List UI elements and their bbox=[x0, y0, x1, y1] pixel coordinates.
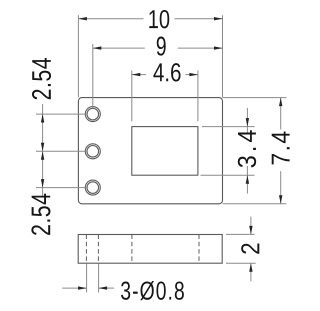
ext line 4.6 right bbox=[197, 71, 199, 122]
side view outline bbox=[78, 235, 222, 264]
arrow 4.6 left bbox=[132, 73, 141, 76]
arrow 10 right bbox=[214, 17, 223, 20]
arrow 2.54a top bbox=[41, 114, 44, 123]
text 2.54a bbox=[32, 58, 51, 99]
text 4.6 bbox=[153, 63, 180, 81]
arrow 0.8 left (outside, points right) bbox=[78, 286, 87, 289]
dim 7.4 vertical line bbox=[280, 98, 282, 130]
dim 2.54 shared vertical line bbox=[42, 104, 44, 197]
dim 7.4 ext lines bbox=[223, 97, 287, 99]
text dia bbox=[121, 281, 184, 300]
arrow 2.54b top bbox=[41, 151, 44, 160]
arrow 10 left bbox=[78, 17, 87, 20]
ext line right 10/9 bbox=[222, 15, 224, 97]
hole H1 outer bbox=[85, 107, 100, 122]
arrow 9 left bbox=[93, 46, 102, 49]
dim 0.8 horizontal line bbox=[62, 287, 86, 289]
arrow 2.54a bottom bbox=[41, 143, 44, 152]
hole H1 inner bbox=[87, 108, 99, 120]
text 10 bbox=[149, 10, 169, 28]
ext line 9 left (through hole1) bbox=[92, 44, 94, 108]
ext line left 10 bbox=[77, 15, 79, 97]
ext line 4.6 left bbox=[131, 71, 133, 122]
inner pocket rectangle bbox=[132, 127, 198, 176]
hole H2 outer bbox=[85, 144, 100, 159]
arrow 3.4 top (outside, points down) bbox=[246, 118, 249, 127]
arrow 2.54b bottom bbox=[41, 179, 44, 188]
body outline top view bbox=[78, 98, 222, 204]
text 9 bbox=[157, 37, 166, 56]
arrow 9 right bbox=[214, 46, 223, 49]
arrow 7.4 bottom bbox=[279, 195, 282, 204]
arrow 4.6 right bbox=[189, 73, 198, 76]
dim 10 line bbox=[78, 18, 143, 20]
hole H3 outer bbox=[85, 180, 100, 195]
arrow 7.4 top bbox=[279, 98, 282, 107]
hole H2 inner bbox=[87, 146, 99, 158]
arrow 0.8 right (outside, points left) bbox=[99, 286, 108, 289]
dim 2 vertical line bbox=[250, 217, 252, 235]
text 2.54b bbox=[31, 194, 50, 235]
hole center ext lines (left) bbox=[36, 113, 88, 115]
hole H3 inner bbox=[87, 182, 99, 194]
dim 2 ext lines bbox=[226, 233, 255, 235]
text 3.4 bbox=[238, 130, 256, 167]
text 7.4 bbox=[272, 132, 290, 165]
arrow 2 bottom (outside, points up) bbox=[249, 263, 252, 272]
dim 9 line bbox=[93, 47, 145, 49]
dim 0.8 ext lines bbox=[86, 264, 88, 293]
text 2 bbox=[241, 243, 259, 253]
dim 4.6 line bbox=[132, 74, 146, 76]
arrow 2 top (outside, points down) bbox=[249, 226, 252, 235]
arrow 3.4 bottom (outside, points up) bbox=[246, 175, 249, 184]
dim 3.4 ext lines bbox=[202, 126, 255, 128]
hidden lines in side view bbox=[86, 235, 199, 264]
dim 3.4 vertical line bbox=[246, 108, 248, 133]
